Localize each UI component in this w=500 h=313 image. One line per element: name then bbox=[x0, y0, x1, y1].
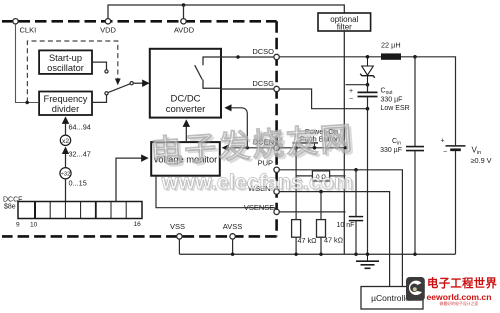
DC/DC converter block bbox=[150, 49, 221, 118]
wire x2 to divider arrow bbox=[65, 118, 67, 136]
wire monitor to DC/DC arrow bbox=[185, 121, 187, 143]
node Cout bottom junction bbox=[366, 107, 370, 111]
pin VDD bbox=[100, 19, 116, 35]
svg-text:$8e: $8e bbox=[4, 204, 16, 211]
svg-text:做最好的电子设计之家: 做最好的电子设计之家 bbox=[440, 301, 479, 306]
svg-text:x2: x2 bbox=[62, 138, 69, 145]
push button S1 bbox=[293, 143, 319, 146]
svg-text:Low ESR: Low ESR bbox=[381, 105, 410, 112]
wire CLKI to divider bbox=[16, 24, 40, 103]
node CLKI wire junction bbox=[26, 101, 29, 104]
svg-text:10 nF: 10 nF bbox=[337, 222, 355, 229]
node ground symbol rail bbox=[366, 253, 369, 256]
svg-text:9: 9 bbox=[16, 222, 20, 229]
svg-text:filter: filter bbox=[337, 23, 352, 32]
pin VSENSE bbox=[244, 203, 279, 215]
wire register to div32 bbox=[65, 179, 67, 202]
node AVDD junction bbox=[182, 3, 186, 7]
svg-text:47 kΩ: 47 kΩ bbox=[298, 236, 318, 245]
optional filter U3 bbox=[318, 13, 371, 32]
node R2 rail bbox=[319, 253, 322, 256]
label DCCF $8e bbox=[3, 197, 22, 211]
battery Vin bbox=[440, 137, 465, 254]
svg-text:VSENSE: VSENSE bbox=[244, 203, 274, 212]
svg-text:47 kΩ: 47 kΩ bbox=[324, 236, 344, 245]
wire div32 to x2 arrow bbox=[65, 148, 67, 168]
pin DCEN bbox=[253, 138, 280, 151]
svg-text:≥0.9 V: ≥0.9 V bbox=[471, 156, 492, 165]
svg-text:CLKI: CLKI bbox=[20, 26, 37, 35]
wire DCSG from DC/DC bbox=[221, 88, 274, 90]
svg-text:−: − bbox=[349, 96, 353, 103]
label Cin value bbox=[380, 138, 402, 154]
resistor R3 0 ohm bbox=[296, 171, 345, 181]
switch contact oscillator bbox=[105, 70, 108, 73]
capacitor C3 10nF bbox=[337, 170, 364, 254]
svg-text:VDD: VDD bbox=[100, 26, 116, 35]
wire register to voltage monitor bbox=[116, 158, 148, 201]
start-up oscillator block bbox=[39, 50, 92, 74]
microcontroller U2 bbox=[361, 287, 423, 310]
wire ground rail bbox=[179, 253, 455, 255]
svg-text:电子工程世界: 电子工程世界 bbox=[427, 276, 497, 290]
node pushbutton left bbox=[294, 146, 298, 150]
svg-text:www.elecfans.com: www.elecfans.com bbox=[161, 170, 354, 194]
svg-text:÷32: ÷32 bbox=[61, 171, 71, 177]
svg-text:330 µF: 330 µF bbox=[380, 147, 402, 154]
chip boundary top dashed edge bbox=[2, 20, 277, 23]
wire AVDD stub bbox=[183, 5, 185, 19]
node PUP 10nF tap bbox=[354, 168, 358, 172]
svg-text:DCCF: DCCF bbox=[3, 197, 22, 204]
oscillator system dashed box bbox=[27, 41, 117, 103]
pin AVSS bbox=[223, 222, 242, 239]
svg-text:10: 10 bbox=[30, 222, 38, 229]
node diode tap bbox=[366, 55, 370, 59]
svg-text:oscillator: oscillator bbox=[47, 63, 84, 73]
svg-text:Start-up: Start-up bbox=[49, 53, 82, 63]
inductor L1 22uH bbox=[381, 53, 401, 59]
capacitor Cin bbox=[406, 57, 424, 254]
svg-text:DC/DC: DC/DC bbox=[170, 94, 200, 105]
svg-text:64...94: 64...94 bbox=[69, 123, 91, 132]
wire divider output bbox=[92, 95, 107, 102]
wire Vin rail to battery bbox=[401, 57, 456, 146]
dashed control arrowhead bbox=[115, 79, 121, 86]
svg-text:电子发烧友网: 电子发烧友网 bbox=[149, 120, 355, 170]
wire AVSS drop bbox=[232, 239, 234, 254]
capacitor Cout bbox=[349, 85, 378, 109]
svg-text:32...47: 32...47 bbox=[69, 149, 91, 158]
diode D1 schottky bbox=[360, 57, 375, 84]
pin VSS bbox=[170, 222, 185, 239]
svg-text:divider: divider bbox=[52, 104, 79, 114]
svg-text:AVSS: AVSS bbox=[223, 222, 242, 231]
svg-text:22 µH: 22 µH bbox=[381, 41, 401, 50]
svg-text:DCSG: DCSG bbox=[252, 79, 274, 88]
switch lever clock select bbox=[108, 84, 130, 93]
switch contact divider bbox=[105, 92, 108, 95]
chip boundary bottom dashed edge bbox=[2, 235, 277, 238]
node on DCSO wire bbox=[236, 55, 239, 58]
pin WSEN bbox=[248, 184, 279, 195]
node Vout junction bbox=[366, 83, 370, 87]
wire VSENSE line bbox=[279, 211, 345, 213]
svg-text:330 µF: 330 µF bbox=[381, 96, 403, 103]
resistor R1 47k bbox=[292, 220, 317, 255]
wire WSEN line bbox=[279, 192, 389, 287]
switch inside DC/DC bbox=[195, 57, 221, 88]
wire button branch down bbox=[295, 148, 297, 220]
node R1 rail bbox=[294, 253, 297, 256]
wire oscillator output bbox=[92, 62, 107, 70]
register bit numbers bbox=[16, 221, 141, 229]
svg-text:16: 16 bbox=[134, 221, 142, 228]
wire clock to DC/DC bbox=[133, 82, 148, 84]
eeworld logo square bbox=[406, 277, 425, 301]
wire DCSO from DC/DC bbox=[221, 56, 274, 58]
svg-text:−: − bbox=[443, 149, 447, 156]
svg-text:Vin: Vin bbox=[472, 146, 482, 157]
eeworld logo text bbox=[427, 276, 498, 306]
wire Vout branch to filter line bbox=[346, 84, 368, 86]
svg-text:Cout: Cout bbox=[381, 88, 394, 97]
svg-text:DCSO: DCSO bbox=[252, 47, 274, 56]
watermark elecfans chinese bbox=[149, 120, 358, 172]
pin DCSG bbox=[252, 79, 279, 92]
wire DCEN to monitor arrow bbox=[223, 147, 274, 149]
chip boundary right dashed edge bbox=[275, 21, 278, 236]
wire filter output long vertical bbox=[343, 31, 345, 254]
node 10nF rail bbox=[354, 253, 357, 256]
wire DCEN branch to DC/DC arrow bbox=[226, 108, 248, 148]
pin PUP bbox=[258, 158, 280, 172]
svg-text:+: + bbox=[440, 137, 444, 144]
watermark elecfans url bbox=[161, 170, 356, 196]
node DCEN branch bbox=[246, 146, 249, 149]
svg-text:+: + bbox=[349, 88, 353, 95]
label Cout value bbox=[381, 88, 410, 113]
pin CLKI bbox=[13, 19, 36, 35]
label Vin value bbox=[471, 146, 492, 165]
node WSEN divider tap bbox=[319, 190, 323, 194]
wire ground column bbox=[367, 109, 369, 255]
svg-text:0...15: 0...15 bbox=[69, 179, 87, 188]
switch pole bbox=[130, 82, 133, 85]
divider by 32 bbox=[60, 168, 71, 179]
register DCCF bbox=[18, 202, 142, 219]
voltage monitor block bbox=[151, 142, 220, 176]
svg-text:converter: converter bbox=[166, 104, 206, 115]
svg-text:Frequency: Frequency bbox=[44, 94, 88, 104]
divider x2 bbox=[60, 135, 70, 145]
pin DCSO bbox=[252, 47, 279, 60]
wire VSS drop bbox=[178, 239, 180, 254]
wire VDD-AVDD top rail bbox=[108, 5, 344, 19]
frequency divider block bbox=[39, 92, 92, 116]
wire DCEN line to pushbutton bbox=[279, 147, 345, 149]
wire PUP line bbox=[279, 170, 402, 287]
node DCEN to vertical bbox=[344, 146, 348, 150]
node Cin rail bbox=[413, 253, 416, 256]
ground bbox=[356, 254, 379, 268]
wire monitor to VSENSE bbox=[156, 176, 277, 210]
label Power-On Push Button bbox=[300, 127, 340, 143]
node pushbutton right bbox=[313, 146, 317, 150]
pin AVDD bbox=[174, 19, 195, 35]
svg-text:AVDD: AVDD bbox=[174, 26, 195, 35]
resistor R2 47k bbox=[317, 192, 344, 255]
svg-text:VSS: VSS bbox=[170, 222, 185, 231]
wire DCSO rail bbox=[279, 56, 381, 58]
wire DCSG route to Cout bottom bbox=[279, 89, 367, 109]
svg-text:Cin: Cin bbox=[392, 138, 401, 147]
node AVSS rail bbox=[231, 253, 234, 256]
node Cin tap bbox=[413, 55, 417, 59]
